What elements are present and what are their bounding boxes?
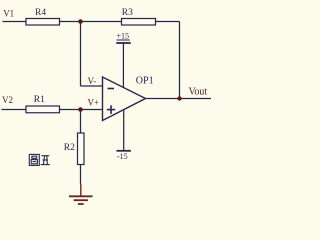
wire — [60, 21, 122, 23]
resistor R3 — [122, 8, 156, 25]
svg-text:V-: V- — [88, 76, 97, 86]
svg-text:V2: V2 — [2, 95, 13, 105]
wire — [81, 85, 103, 87]
power +15 — [116, 32, 130, 89]
wire — [80, 22, 82, 87]
svg-text:R1: R1 — [34, 95, 45, 105]
ground — [69, 196, 93, 204]
svg-text:V1: V1 — [3, 9, 14, 19]
wire — [80, 184, 82, 196]
svg-text:R2: R2 — [64, 143, 75, 153]
power -15 — [117, 110, 131, 161]
svg-text:+15: +15 — [117, 32, 130, 41]
caption 圖五 — [29, 154, 50, 165]
op-amp OP1 — [103, 76, 154, 121]
svg-text:V+: V+ — [88, 98, 100, 108]
svg-text:R3: R3 — [122, 8, 133, 18]
wire — [179, 22, 181, 99]
resistor R2 — [64, 133, 84, 165]
svg-text:Vout: Vout — [189, 87, 208, 98]
wire — [3, 21, 27, 23]
wire — [156, 21, 180, 23]
wire — [60, 109, 103, 111]
wire — [80, 165, 82, 185]
node B — [78, 107, 83, 112]
svg-text:R4: R4 — [35, 8, 46, 18]
node A — [78, 19, 83, 24]
resistor R1 — [26, 95, 60, 113]
svg-text:-15: -15 — [117, 152, 128, 161]
svg-text:OP1: OP1 — [136, 76, 154, 87]
node Vout — [177, 96, 181, 100]
wire — [80, 110, 82, 134]
wire — [2, 109, 27, 111]
wire — [146, 98, 212, 100]
resistor R4 — [26, 8, 60, 25]
